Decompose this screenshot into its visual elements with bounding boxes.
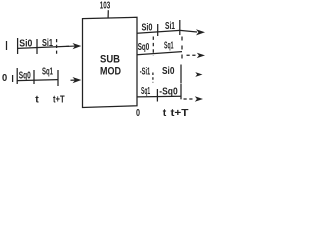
svg-text:t+T: t+T [171, 107, 190, 119]
right row 1 separator bar [157, 24, 159, 36]
svg-text:Si0: Si0 [142, 22, 153, 34]
left input row 2: mid separator bar [33, 70, 35, 84]
right row 3 dashed separator [152, 73, 154, 83]
right row 2 dashed separator [152, 37, 154, 57]
right row 4 separator bar [156, 89, 158, 102]
wire arrow into block (left row 1) [73, 43, 82, 49]
wire arrow out (right row 3) [195, 72, 202, 77]
wire arrow out (right row 4) [195, 96, 203, 101]
wire arrow into block (left row 2) [73, 77, 82, 83]
left input row 1: start bar [17, 38, 19, 54]
wire: left row 2 baseline [17, 80, 58, 81]
wire: right row 1 baseline [137, 30, 180, 33]
wire arrow out (right row 1) [196, 29, 205, 35]
svg-text:Sq1: Sq1 [42, 65, 53, 77]
left input row 2: end bar [57, 70, 59, 86]
wire: right row 2 baseline [137, 52, 182, 55]
right row 1 end bar [179, 20, 181, 35]
svg-text:Sq1: Sq1 [164, 40, 174, 52]
svg-text:SUB: SUB [100, 54, 120, 66]
svg-text:-Sq0: -Sq0 [159, 85, 178, 97]
block 103 SUB MOD [83, 17, 138, 107]
right row 3 end bar [180, 65, 182, 84]
svg-text:t: t [163, 107, 167, 119]
right row 4 end bar [180, 84, 182, 99]
svg-text:0: 0 [136, 107, 140, 119]
wire arrow out (right row 2) [197, 53, 205, 58]
svg-text:0: 0 [2, 72, 7, 84]
svg-text:103: 103 [100, 0, 111, 11]
svg-text:t: t [35, 94, 39, 106]
svg-text:Si1: Si1 [42, 37, 53, 49]
left input row 1: mid separator bar [36, 39, 38, 54]
svg-text:Sq0: Sq0 [19, 70, 31, 82]
svg-text:MOD: MOD [100, 66, 121, 78]
node 103 leader line [107, 10, 109, 17]
svg-text:Si0: Si0 [162, 65, 175, 77]
svg-text:Si1: Si1 [165, 20, 175, 32]
wire: right row 4 baseline [137, 95, 181, 98]
svg-text:-Si1: -Si1 [140, 65, 150, 77]
wire: left row 1 baseline [18, 46, 69, 48]
left input row 2: tick [12, 75, 14, 82]
svg-text:t+T: t+T [53, 94, 65, 106]
left input row 1: tick [6, 41, 8, 50]
right row 2 dashed end bar [181, 37, 183, 60]
wire: right row 2 dashed arrow tail [187, 54, 198, 56]
svg-text:Sq1: Sq1 [141, 85, 150, 97]
svg-text:Si0: Si0 [19, 38, 32, 50]
left input row 2: start bar [16, 68, 18, 84]
svg-text:Sq0: Sq0 [138, 41, 150, 53]
left input row 1: dashed end bar [56, 39, 58, 56]
wire: right row 4 dashed arrow tail [184, 98, 195, 100]
